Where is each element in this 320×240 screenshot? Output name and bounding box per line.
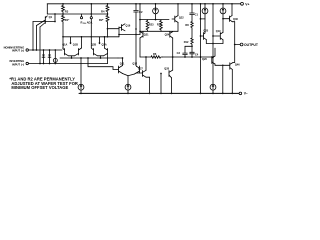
diode D2	[48, 50, 51, 64]
wire Q1 pair emitters join	[69, 56, 75, 59]
transistor Q1	[45, 4, 52, 24]
wire tail x213	[212, 3, 214, 84]
svg-text:Q24: Q24	[165, 34, 170, 37]
terminal noninverting input	[4, 45, 29, 52]
terminal OUTPUT	[235, 43, 259, 47]
svg-text:MINIMUM OFFSET VOLTAGE: MINIMUM OFFSET VOLTAGE	[11, 85, 68, 90]
current source I5	[220, 3, 226, 32]
wire Q11 Q12 emitters join	[123, 74, 135, 85]
wire R2 node to Q16 base	[107, 27, 120, 37]
wire bus A y19.6	[140, 19, 169, 21]
capacitor C2	[134, 3, 143, 14]
resistor R3	[62, 3, 69, 14]
resistor R2*	[99, 15, 109, 24]
resistor R1*	[62, 15, 71, 24]
svg-text:R1*: R1*	[65, 18, 70, 22]
wire gain node y57 right	[163, 56, 214, 58]
svg-text:R2*: R2*	[99, 18, 104, 22]
transistor Q11	[88, 58, 125, 74]
node ROS ADJ label	[81, 20, 93, 25]
svg-text:C3: C3	[177, 51, 181, 55]
svg-text:C4: C4	[195, 52, 199, 56]
resistor R12	[184, 29, 194, 45]
wire Q2 pair emitters join	[98, 56, 104, 59]
resistor R6	[151, 52, 163, 58]
node base tie stubs	[70, 37, 101, 44]
transistor Q27	[136, 57, 150, 94]
transistor Q2A	[104, 37, 108, 56]
wire emitter bus y58	[60, 57, 123, 59]
capacitor C3	[177, 45, 193, 57]
transistor Q48	[223, 3, 238, 22]
wire bias rail x200.5	[200, 3, 205, 94]
wire bus y34.5	[119, 3, 141, 35]
current source I6	[210, 84, 216, 94]
svg-text:R4: R4	[101, 9, 105, 13]
svg-text:V+: V+	[245, 2, 249, 6]
current source I3	[125, 84, 131, 94]
wire bottom supply rail	[79, 92, 239, 94]
svg-text:Q46: Q46	[235, 64, 240, 67]
transistor Q1B	[75, 37, 82, 56]
transistor quad labels	[62, 44, 107, 47]
wire ROS tap right	[107, 13, 109, 15]
transistor Q26	[202, 48, 224, 94]
wire Q1 emitter diagonal to -input	[39, 23, 45, 65]
wire R2 column to bus	[107, 23, 109, 38]
svg-text:Q22: Q22	[179, 17, 184, 20]
current source I4	[202, 3, 208, 33]
capacitor C4	[190, 45, 199, 58]
current source I2 input tail	[78, 58, 84, 94]
transistor Q21	[140, 32, 149, 57]
transistor Q22	[172, 3, 184, 31]
svg-text:Q25: Q25	[203, 29, 208, 32]
wire +input	[29, 49, 63, 51]
transistor Q28	[164, 57, 172, 94]
transistor Q16	[119, 24, 131, 31]
svg-text:INPUT (−): INPUT (−)	[12, 62, 24, 66]
svg-text:Q1B: Q1B	[73, 44, 78, 47]
transistor Q25	[201, 29, 214, 43]
V- terminal	[239, 91, 248, 95]
svg-text:R3: R3	[65, 9, 69, 13]
svg-text:C2: C2	[139, 10, 143, 14]
resistor R24	[157, 20, 162, 32]
svg-text:Q48: Q48	[233, 18, 238, 21]
svg-text:R12: R12	[184, 40, 189, 44]
svg-text:V−: V−	[244, 91, 248, 95]
transistor Q24	[165, 32, 173, 57]
wire vertical from rail x91	[90, 3, 92, 48]
svg-text:Q21: Q21	[144, 34, 149, 37]
wire guard left vertical	[32, 22, 34, 51]
wire gain node y57	[140, 56, 151, 58]
wire C2 bottom vertical	[135, 12, 137, 66]
svg-text:R8: R8	[185, 23, 189, 27]
wire ROS tap left	[62, 13, 81, 16]
transistor Q1A	[63, 48, 69, 56]
terminal ROS ADJ right	[90, 17, 92, 19]
resistor R8	[185, 15, 193, 29]
svg-text:Q12: Q12	[132, 62, 137, 65]
transistor Q19	[212, 30, 223, 44]
diode circle Q3	[53, 49, 57, 64]
current source I1	[153, 3, 159, 21]
wire collector node Q1A	[62, 23, 64, 49]
svg-text:Q2B: Q2B	[91, 44, 96, 47]
wire bias leg x161	[160, 73, 162, 95]
terminal inverting input	[10, 59, 29, 66]
wire bus B y31.3	[140, 30, 178, 32]
transistor Q12	[132, 62, 139, 74]
svg-text:Q1A: Q1A	[62, 44, 67, 47]
wire output vertical	[234, 22, 236, 63]
svg-text:INPUT (+): INPUT (+)	[12, 49, 24, 53]
capacitor C1	[190, 13, 199, 17]
wire -input	[29, 56, 108, 65]
transistor Q46	[222, 63, 240, 95]
wire Q1 base diagonal to +input	[36, 20, 46, 51]
svg-text:Q16: Q16	[126, 24, 131, 27]
transistor Q2B	[91, 48, 97, 56]
note text	[9, 77, 78, 90]
wire top supply rail	[47, 3, 240, 5]
svg-text:Q26: Q26	[202, 58, 207, 61]
wire collector bus y36.8	[63, 36, 119, 38]
resistor R4	[101, 3, 109, 14]
V+ terminal	[241, 2, 250, 6]
svg-text:Q1: Q1	[49, 15, 53, 19]
svg-text:ADJ.: ADJ.	[87, 20, 93, 24]
wire y14 tap feed	[33, 13, 108, 22]
svg-text:C1: C1	[195, 13, 199, 17]
svg-text:OUTPUT: OUTPUT	[244, 43, 259, 47]
wire compensation chain top	[191, 3, 193, 13]
diode D1	[42, 50, 45, 64]
resistor R23	[146, 20, 154, 32]
terminal ROS ADJ left	[80, 17, 82, 19]
